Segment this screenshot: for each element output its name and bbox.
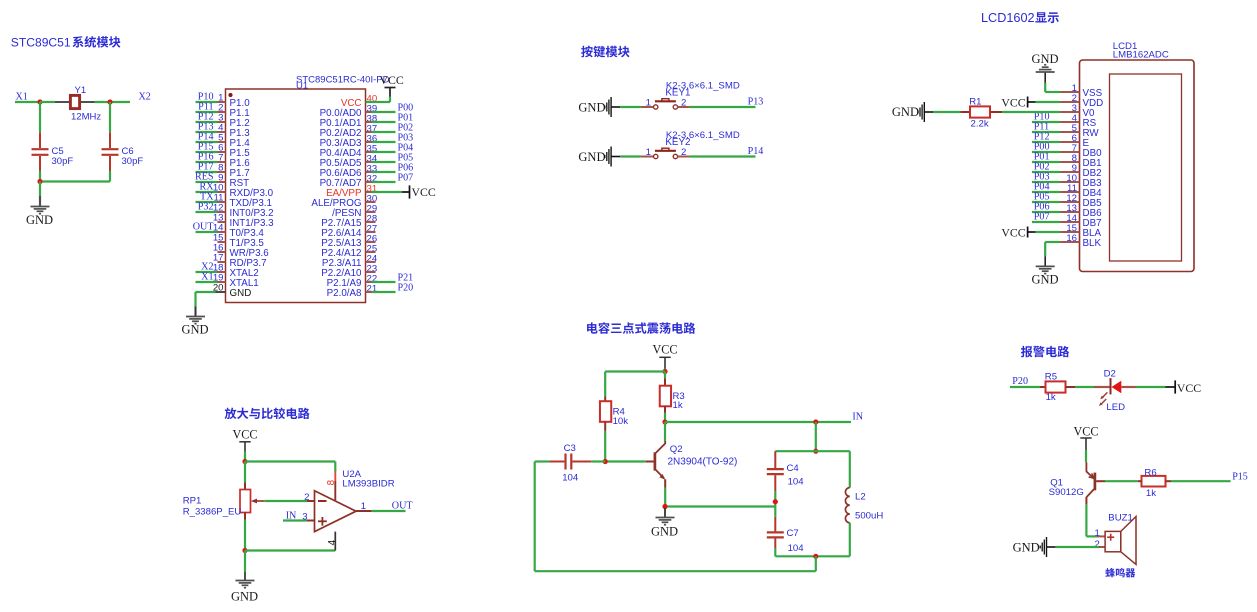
wire: [1032, 181, 1060, 183]
junction: [662, 504, 667, 509]
svg-text:U1: U1: [296, 81, 308, 92]
title 报警电路: [1021, 346, 1069, 358]
wire: [196, 131, 218, 133]
net label P12: [1034, 132, 1050, 143]
svg-text:10k: 10k: [613, 416, 629, 427]
svg-text:D2: D2: [1104, 369, 1116, 380]
junction: [773, 499, 778, 504]
net label P15: [1232, 472, 1248, 483]
wire: [39, 171, 41, 182]
designator Q1: [1050, 478, 1063, 489]
svg-text:LCD1602: LCD1602: [981, 11, 1035, 25]
wire: [605, 370, 665, 372]
svg-text:RP1: RP1: [183, 496, 202, 507]
value LM393BIDR: [342, 479, 394, 490]
pin 8 P1.7: [218, 163, 250, 179]
svg-text:VCC: VCC: [380, 73, 404, 87]
wire: [849, 451, 851, 487]
wire pin40 to VCC: [366, 97, 391, 103]
svg-text:VCC: VCC: [1177, 381, 1201, 395]
net label P04: [1034, 182, 1050, 193]
wire: [1171, 480, 1231, 482]
svg-text:1k: 1k: [1146, 488, 1156, 499]
wire: [372, 181, 396, 183]
power VCC: [380, 73, 404, 97]
wire: [196, 181, 218, 183]
wire: [40, 101, 55, 103]
net label P03: [398, 133, 414, 144]
capacitor C4: [767, 451, 784, 491]
junction: [813, 419, 818, 424]
net label P13: [198, 121, 214, 132]
designator R6: [1144, 467, 1156, 478]
net label P11: [198, 101, 213, 112]
wire: [372, 121, 396, 123]
transistor Q1 S9012G: [1086, 462, 1095, 504]
wire: [40, 180, 110, 182]
wire pin1 to ground: [1045, 83, 1060, 93]
pin 7 DB0: [1060, 143, 1102, 159]
pin 10 DB3: [1060, 173, 1102, 189]
net label RX: [199, 181, 214, 192]
svg-text:2: 2: [1094, 539, 1099, 550]
wire: [1032, 121, 1060, 123]
designator R1: [969, 96, 981, 107]
designator D2: [1104, 369, 1116, 380]
svg-text:P15: P15: [1232, 472, 1248, 483]
svg-text:L2: L2: [855, 492, 866, 503]
wire: [372, 291, 396, 293]
svg-text:BUZ1: BUZ1: [1108, 513, 1133, 524]
pin 8 DB1: [1060, 153, 1102, 169]
svg-text:LMB162ADC: LMB162ADC: [1113, 50, 1169, 61]
pin 13 DB6: [1060, 203, 1102, 219]
value 30pF: [52, 156, 74, 167]
wire: [1105, 480, 1138, 482]
pin 14 DB7: [1060, 213, 1102, 229]
net label P03: [1034, 172, 1050, 183]
ground: [231, 572, 258, 604]
designator C3: [564, 443, 576, 454]
wire: [774, 548, 776, 556]
ground power port (R1): [892, 102, 934, 122]
net label P16: [198, 151, 214, 162]
net label OUT: [193, 221, 214, 232]
power VCC: [652, 343, 677, 369]
wire: [196, 161, 218, 163]
pin 3 V0: [1060, 103, 1095, 119]
net label P14: [198, 131, 214, 142]
net label P05: [1034, 192, 1050, 203]
pin 3 P1.2: [218, 113, 250, 129]
wire: [372, 510, 406, 512]
wire: [605, 460, 646, 462]
value 2.2k: [971, 118, 989, 129]
wire: [815, 556, 817, 571]
designator Q2: [670, 444, 683, 455]
wire: [196, 121, 218, 123]
wire: [196, 191, 218, 193]
wire: [39, 182, 41, 197]
power VCC bar (pin2): [1001, 95, 1036, 109]
title 放大与比较电路: [225, 408, 310, 420]
value 30pF: [122, 156, 144, 167]
ground power port (KEY2): [578, 147, 620, 167]
wire: [620, 155, 641, 157]
pin 11 TXD/P3.1: [214, 193, 272, 209]
svg-text:KEY1: KEY1: [665, 88, 690, 99]
wire: [372, 281, 396, 283]
wire: [1056, 546, 1099, 548]
svg-text:30pF: 30pF: [122, 156, 144, 167]
pin 35 P0.4/AD4: [320, 144, 378, 159]
ground (bottom): [1031, 257, 1058, 287]
svg-text:R6: R6: [1144, 467, 1156, 478]
pin 5 P1.4: [218, 133, 251, 149]
pin 7 P1.6: [218, 153, 251, 169]
pin 22 P2.1/A9: [327, 274, 378, 289]
pin 16 BLK: [1060, 233, 1101, 249]
svg-text:GND: GND: [651, 525, 678, 539]
pin 14 T0/P3.4: [213, 223, 265, 239]
wire pin20 to ground: [196, 292, 226, 307]
wire: [1032, 161, 1060, 163]
pin 12 INT0/P3.2: [213, 203, 274, 219]
wire: [1032, 191, 1060, 193]
wire: [244, 462, 246, 483]
wire: [245, 549, 335, 551]
ground: [651, 508, 678, 539]
pin 19 XTAL1: [213, 273, 259, 289]
pin 2 P1.1: [218, 103, 250, 119]
wire: [1032, 131, 1060, 133]
resistor R4: [600, 397, 611, 431]
wire: [1002, 111, 1060, 113]
net label P06: [1034, 202, 1050, 213]
node X1 junction: [37, 99, 42, 104]
value STC89C51RC-40I-PDIP: [296, 75, 390, 86]
wire pin31 to VCC: [372, 191, 403, 193]
wire: [196, 231, 218, 233]
svg-text:X1: X1: [16, 92, 28, 103]
junction: [662, 369, 667, 374]
value LED: [1106, 402, 1125, 413]
svg-text:GND: GND: [181, 323, 208, 337]
svg-text:GND: GND: [578, 101, 605, 115]
wire: [196, 151, 218, 153]
value 104: [788, 477, 805, 488]
pin 5 RW: [1060, 123, 1099, 139]
wire: [244, 551, 246, 573]
wire: [372, 151, 396, 153]
wire: [775, 450, 850, 452]
svg-text:1: 1: [646, 147, 651, 158]
pin 23 P2.2/A10: [321, 264, 377, 279]
pin 12 DB5: [1060, 193, 1102, 209]
svg-text:X1: X1: [201, 271, 213, 282]
svg-text:500uH: 500uH: [855, 511, 883, 522]
pin 40 VCC: [341, 94, 377, 109]
designator R5: [1045, 372, 1057, 383]
svg-text:KEY2: KEY2: [665, 137, 690, 148]
wire: [690, 106, 756, 108]
wire pin16 to ground: [1045, 242, 1060, 257]
wire: [1032, 201, 1060, 203]
value 1k: [673, 400, 683, 411]
svg-text:LM393BIDR: LM393BIDR: [342, 479, 394, 490]
value 蜂鸣器: [1105, 568, 1135, 577]
pin number 1: [1094, 528, 1099, 539]
pin 36 P0.3/AD3: [320, 134, 378, 149]
svg-text:GND: GND: [892, 105, 919, 119]
svg-text:P32: P32: [198, 201, 214, 212]
designator C7: [787, 528, 799, 539]
wire: [534, 462, 536, 572]
svg-text:VCC: VCC: [1073, 425, 1098, 439]
svg-text:4: 4: [327, 539, 338, 545]
pin 1 VSS: [1060, 83, 1103, 99]
pin 13 INT1/P3.3: [213, 213, 274, 229]
resistor R1: [961, 106, 1003, 117]
wire: [1035, 231, 1060, 233]
pin 10 RXD/P3.0: [213, 183, 274, 199]
net label P14: [748, 146, 764, 157]
value 1k: [1146, 488, 1156, 499]
op-amp U2A pin 8: [326, 472, 337, 501]
net label P10: [1034, 112, 1050, 123]
net label P04: [398, 143, 414, 154]
capacitor C3: [549, 454, 591, 470]
wire: [39, 102, 41, 132]
switch KEY1 K2-3.6x6.1_SMD: [641, 99, 690, 110]
op-amp U2A LM393BIDR: [315, 491, 357, 532]
pin 20 GND: [213, 283, 251, 299]
svg-text:IN: IN: [286, 511, 297, 522]
net label P02: [398, 123, 414, 134]
wire: [1032, 141, 1060, 143]
junction: [603, 459, 608, 464]
svg-text:P20: P20: [398, 283, 414, 294]
net label X2: [201, 261, 213, 272]
title STC89C51系统模块: [11, 36, 121, 50]
svg-text:R5: R5: [1045, 372, 1057, 383]
wire: [196, 271, 218, 273]
wire: [244, 520, 246, 551]
junction: [242, 548, 247, 553]
net label P05: [398, 153, 414, 164]
net label P12: [198, 111, 214, 122]
ground: [181, 307, 208, 337]
pin base stub: [646, 461, 654, 463]
svg-text:2N3904(TO-92): 2N3904(TO-92): [668, 457, 738, 468]
net label P06: [398, 163, 414, 174]
wire: [1010, 386, 1040, 388]
wire: [283, 519, 307, 521]
net label P10: [198, 91, 214, 102]
svg-text:1k: 1k: [1046, 392, 1056, 403]
svg-text:1: 1: [646, 97, 651, 108]
wire: [690, 155, 756, 157]
svg-text:STC89C51: STC89C51: [11, 36, 71, 50]
wire: [372, 161, 396, 163]
wire: [372, 131, 396, 133]
wire: [245, 460, 335, 462]
svg-text:P14: P14: [748, 146, 764, 157]
wire: [1032, 151, 1060, 153]
pin 18 XTAL2: [213, 263, 259, 279]
wire: [604, 431, 606, 462]
net label P01: [398, 113, 414, 124]
net label OUT: [392, 501, 413, 512]
pin 4 P1.3: [218, 123, 251, 139]
svg-text:R_3386P_EU: R_3386P_EU: [183, 507, 242, 518]
svg-text:VCC: VCC: [652, 343, 677, 357]
pin 17 RD/P3.7: [213, 253, 267, 269]
switch KEY2 K2-3.6x6.1_SMD: [641, 148, 690, 159]
pin 9 DB2: [1060, 163, 1102, 179]
pin 21 P2.0/A8: [327, 284, 378, 299]
value 104: [788, 543, 805, 554]
svg-text:VCC: VCC: [1001, 95, 1025, 109]
svg-text:GND: GND: [230, 288, 252, 299]
wire: [196, 281, 218, 283]
title LCD1602显示: [981, 11, 1059, 25]
pin 31 EA/VPP: [326, 184, 377, 199]
wire: [1096, 480, 1105, 482]
pin 27 P2.6/A14: [321, 224, 377, 239]
svg-text:OUT: OUT: [392, 501, 413, 512]
power VCC bar (pin15): [1001, 225, 1036, 239]
wire: [933, 111, 961, 113]
wire: [95, 101, 131, 103]
wire IN net: [665, 421, 851, 423]
wire: [1085, 450, 1087, 462]
wire: [372, 171, 396, 173]
value K2-3.6×6.1_SMD: [666, 80, 740, 91]
svg-text:OUT: OUT: [193, 221, 214, 232]
wire: [1136, 386, 1166, 388]
ground power port (buzzer): [1013, 537, 1056, 557]
value 104: [562, 472, 579, 483]
svg-text:GND: GND: [26, 213, 53, 227]
net label P11: [1034, 122, 1049, 133]
svg-text:P07: P07: [1034, 212, 1050, 223]
buzzer BUZ1: [1097, 517, 1136, 565]
pin 38 P0.1/AD1: [320, 114, 378, 129]
svg-text:STC89C51RC-40I-PD: STC89C51RC-40I-PD: [296, 75, 390, 86]
wire: [620, 106, 641, 108]
capacitor C5: [32, 132, 49, 171]
ground (top): [1031, 52, 1058, 83]
pin 1 marker dot: [228, 93, 232, 97]
junction: [242, 459, 247, 464]
pin 26 P2.5/A13: [321, 234, 377, 249]
svg-text:2: 2: [681, 97, 686, 108]
svg-text:GND: GND: [1013, 541, 1040, 555]
designator R4: [613, 406, 626, 417]
wire: [665, 505, 775, 507]
power VCC bar: [1165, 380, 1201, 395]
inductor L2: [845, 488, 849, 523]
ground: [26, 196, 53, 227]
net label P01: [1034, 152, 1050, 163]
wire: [244, 452, 246, 462]
pin 1 (output): [356, 501, 372, 512]
crystal Y1: [55, 95, 95, 108]
svg-text:16: 16: [1066, 233, 1077, 244]
power VCC: [1073, 425, 1098, 451]
wire: [15, 101, 40, 103]
wire: [196, 101, 218, 103]
pin 24 P2.3/A11: [322, 254, 378, 269]
svg-text:104: 104: [788, 477, 805, 488]
svg-text:1: 1: [1094, 528, 1099, 539]
svg-text:Y1: Y1: [75, 85, 87, 96]
svg-text:C4: C4: [787, 463, 800, 474]
svg-text:30pF: 30pF: [52, 156, 74, 167]
svg-text:2.2k: 2.2k: [971, 118, 989, 129]
wire: [1086, 504, 1097, 536]
pin 3 (non-inverting input): [302, 512, 314, 523]
wire: [849, 523, 851, 557]
svg-text:IN: IN: [852, 412, 863, 423]
wire: [604, 372, 606, 397]
title 按键模块: [581, 46, 630, 58]
power VCC bar: [402, 185, 436, 199]
resistor R6: [1138, 476, 1171, 487]
wire: [372, 111, 396, 113]
pin 6 E: [1060, 133, 1090, 149]
value 12MHz: [71, 112, 101, 123]
wire: [1032, 171, 1060, 173]
net label P20: [1012, 376, 1028, 387]
svg-text:2: 2: [681, 147, 686, 158]
junction: [813, 449, 818, 454]
pin 2 (inverting input): [304, 492, 314, 503]
pin number 1: [646, 97, 651, 108]
net label P32: [198, 201, 214, 212]
pin 37 P0.2/AD2: [320, 124, 378, 139]
pin 39 P0.0/AD0: [320, 104, 378, 119]
node X2 junction: [107, 99, 112, 104]
pin 1 P1.0: [218, 93, 251, 109]
svg-text:VCC: VCC: [412, 185, 436, 199]
svg-text:VCC: VCC: [232, 427, 257, 441]
wire: [1032, 221, 1060, 223]
designator U2A: [342, 469, 361, 480]
wire: [591, 460, 605, 462]
wire: [196, 111, 218, 113]
transistor Q2 2N3904: [655, 422, 665, 488]
wire: [196, 201, 218, 203]
value 2N3904(TO-92): [668, 457, 738, 468]
svg-text:1: 1: [361, 501, 366, 512]
power VCC: [232, 427, 257, 451]
pin number 1: [646, 147, 651, 158]
ic U1 STC89C51RC-40I-PDIP body: [226, 89, 366, 303]
led D2: [1094, 378, 1136, 406]
net label X2: [139, 92, 151, 103]
pin 34 P0.5/AD5: [320, 154, 378, 169]
net label P20: [398, 283, 414, 294]
net label IN: [286, 511, 297, 522]
net label P00: [398, 103, 414, 114]
resistor R3: [660, 379, 671, 413]
value LMB162ADC: [1113, 50, 1169, 61]
net label P02: [1034, 162, 1050, 173]
op-amp U2A pin 4: [327, 532, 338, 551]
wire: [774, 491, 776, 516]
